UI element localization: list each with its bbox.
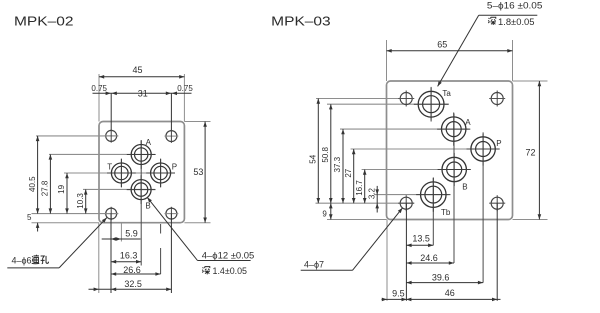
svg-text:72: 72 (525, 147, 535, 157)
svg-text:19: 19 (57, 184, 66, 193)
svg-text:4–ϕ6: 4–ϕ6 (12, 255, 32, 265)
svg-text:0.75: 0.75 (91, 84, 107, 93)
svg-text:46: 46 (445, 288, 455, 298)
svg-text:5: 5 (27, 213, 32, 222)
svg-text:39.6: 39.6 (432, 273, 450, 283)
svg-text:Tb: Tb (441, 208, 451, 217)
svg-text:45: 45 (132, 65, 142, 75)
svg-text:5.9: 5.9 (125, 229, 138, 239)
svg-text:65: 65 (437, 39, 447, 49)
svg-text:Ta: Ta (442, 89, 451, 98)
svg-text:16.3: 16.3 (120, 250, 138, 260)
svg-text:16.7: 16.7 (355, 180, 364, 196)
svg-text:27: 27 (344, 168, 353, 177)
svg-text:50.8: 50.8 (321, 146, 330, 162)
svg-text:32.5: 32.5 (124, 279, 142, 289)
svg-text:27.8: 27.8 (41, 180, 50, 196)
svg-text:24.6: 24.6 (420, 253, 438, 263)
svg-text:31: 31 (138, 88, 148, 98)
svg-text:1.4±0.05: 1.4±0.05 (213, 266, 248, 276)
svg-text:A: A (146, 138, 152, 147)
svg-text:MPK–02: MPK–02 (14, 13, 74, 28)
svg-text:1.8±0.05: 1.8±0.05 (498, 17, 535, 27)
svg-text:4–ϕ7: 4–ϕ7 (304, 259, 324, 269)
svg-text:B: B (462, 182, 467, 191)
svg-text:5–ϕ16 ±0.05: 5–ϕ16 ±0.05 (487, 0, 543, 10)
svg-text:54: 54 (309, 154, 318, 163)
svg-text:26.6: 26.6 (123, 265, 141, 275)
svg-text:40.5: 40.5 (28, 176, 37, 192)
svg-text:37.3: 37.3 (333, 156, 342, 172)
svg-text:MPK–03: MPK–03 (271, 13, 331, 28)
svg-text:P: P (496, 139, 501, 148)
svg-text:A: A (465, 118, 471, 127)
svg-text:T: T (107, 162, 112, 171)
svg-text:0.75: 0.75 (177, 84, 193, 93)
svg-text:3.2: 3.2 (367, 187, 376, 199)
svg-text:10.3: 10.3 (76, 193, 85, 209)
svg-text:13.5: 13.5 (412, 233, 430, 243)
svg-text:9: 9 (322, 210, 327, 219)
svg-text:B: B (145, 202, 150, 211)
svg-text:53: 53 (193, 167, 203, 177)
svg-text:9.5: 9.5 (392, 288, 405, 298)
svg-text:4–ϕ12 ±0.05: 4–ϕ12 ±0.05 (202, 250, 255, 260)
svg-text:P: P (172, 162, 177, 171)
